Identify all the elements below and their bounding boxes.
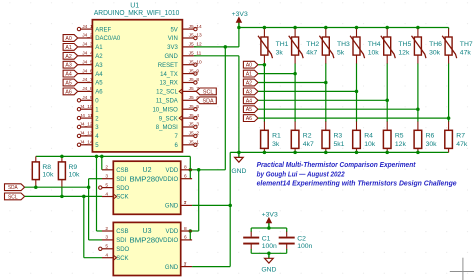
U2 pin 6 VDDIO: [159, 174, 192, 183]
svg-text:J4_13: J4_13: [80, 131, 93, 137]
global label A3 (thermistor divider): [243, 88, 258, 95]
wire SCL to U3 SCK: [84, 196, 102, 257]
svg-text:10k: 10k: [42, 172, 54, 179]
junction +3V3 / R9: [60, 155, 64, 159]
svg-text:R3: R3: [334, 132, 343, 139]
svg-text:Practical Multi-Thermistor Com: Practical Multi-Thermistor Comparison Ex…: [257, 162, 416, 169]
global label A5 at U1: [63, 79, 78, 86]
svg-text:2: 2: [105, 226, 108, 232]
svg-text:A6: A6: [65, 89, 71, 95]
svg-text:3k: 3k: [272, 141, 280, 148]
svg-text:J4_4: J4_4: [82, 51, 93, 57]
svg-text:J5_4: J5_4: [189, 113, 200, 119]
junction +3V3 rail / TH2: [293, 26, 297, 30]
wire SDA to U2 SDI: [89, 179, 102, 188]
svg-text:VDD: VDD: [166, 229, 179, 235]
junction +3V3 drop: [197, 168, 201, 172]
svg-text:SDI: SDI: [116, 177, 126, 183]
svg-text:J4_6: J4_6: [82, 68, 93, 74]
svg-text:J4_12: J4_12: [80, 122, 93, 128]
wire GND vertical (U2/U3): [229, 152, 231, 266]
svg-text:SDA: SDA: [8, 185, 18, 191]
svg-text:element14 Experimenting with T: element14 Experimenting with Thermistors…: [257, 181, 457, 188]
wire node A6: [258, 117, 449, 119]
svg-text:GND: GND: [261, 266, 276, 273]
svg-text:SDA: SDA: [203, 98, 214, 104]
wire SCL to U2 SCK: [25, 195, 102, 197]
resistor R6 30k: [414, 130, 437, 152]
ground GND (main rail): [231, 152, 246, 175]
svg-text:A4: A4: [95, 72, 103, 78]
svg-text:A5: A5: [65, 81, 71, 87]
U3 pin 1 7 GND: [165, 261, 192, 270]
svg-text:8: 8: [184, 165, 187, 171]
svg-text:10_MISO: 10_MISO: [152, 107, 178, 113]
svg-text:14_TX: 14_TX: [160, 72, 178, 78]
junction CSB U2 tap: [100, 155, 104, 159]
svg-text:U2: U2: [143, 167, 152, 174]
wire +3V3 rail: [239, 27, 449, 29]
U1 pin J5_4 9_SCK: [159, 113, 200, 123]
junction node A5 at TH6: [416, 107, 420, 111]
svg-text:TH1: TH1: [276, 41, 289, 48]
svg-text:6: 6: [184, 235, 187, 241]
wire TH4 to R4: [356, 55, 358, 130]
U1 pin J5_5 10_MISO: [152, 104, 199, 114]
U2 pin 8 VDD: [166, 165, 193, 174]
wire node A3: [258, 90, 356, 92]
svg-text:A3: A3: [65, 63, 71, 69]
svg-text:A6: A6: [246, 116, 252, 122]
global label A4 at U1: [63, 70, 78, 77]
wire CSB U3 pull-up: [97, 156, 103, 231]
U1 pin J4_11 2: [77, 113, 99, 123]
U1 pin J5_2 7: [174, 131, 199, 141]
U3 pin 3 SDI: [102, 235, 127, 244]
svg-text:J4_9: J4_9: [82, 95, 93, 101]
svg-text:100n: 100n: [262, 243, 277, 250]
svg-text:C2: C2: [297, 235, 306, 242]
svg-text:SCL: SCL: [8, 194, 18, 200]
svg-text:A5: A5: [95, 81, 103, 87]
power symbol +3V3 (thermistor rail): [232, 11, 248, 28]
global label A5 (thermistor divider): [243, 106, 258, 113]
junction SDA / R8: [34, 185, 38, 189]
U2 pin 1 7 GND: [165, 200, 192, 209]
svg-text:6: 6: [184, 174, 187, 180]
global label A1 at U1: [63, 44, 78, 51]
svg-text:J5_8: J5_8: [189, 77, 200, 83]
svg-text:J4_10: J4_10: [80, 104, 93, 110]
U3 pin 4 SCK: [102, 253, 129, 262]
resistor R1 3k: [261, 130, 281, 152]
U2 pin 5 SDO: [99, 182, 130, 191]
svg-text:4k7: 4k7: [306, 50, 317, 57]
global label A0 at U1: [63, 35, 78, 42]
svg-text:J5_10: J5_10: [189, 59, 202, 65]
svg-text:TH2: TH2: [306, 41, 319, 48]
svg-text:BMP280: BMP280: [130, 238, 160, 245]
thermistor TH4 10k: [350, 28, 381, 59]
U1 pin J5_13 VIN: [168, 33, 202, 43]
svg-text:12k: 12k: [395, 141, 407, 148]
U1 pin J4_6 A4: [78, 68, 103, 78]
svg-text:A3: A3: [246, 89, 252, 95]
svg-text:47k: 47k: [460, 50, 472, 57]
ground GND (decoupling): [261, 253, 276, 273]
svg-text:TH7: TH7: [460, 41, 473, 48]
U2 pin 2 CSB: [102, 165, 129, 174]
wire U2 VDD to U3 VDD drop: [190, 170, 198, 240]
junction GND rail / R5: [385, 151, 389, 155]
wire SDA: [25, 186, 89, 188]
svg-text:R1: R1: [272, 132, 281, 139]
U1 pin J4_12 3: [77, 122, 99, 132]
svg-text:3V3: 3V3: [167, 45, 178, 51]
U1 pin J5_7 12_SCL: [156, 86, 199, 96]
wire TH1 to R1: [263, 55, 265, 130]
svg-text:CSB: CSB: [116, 229, 128, 235]
junction +3V3 rail / TH6: [416, 26, 420, 30]
svg-text:10k: 10k: [364, 141, 376, 148]
wire U2 GND: [192, 204, 230, 206]
U3 pin 6 VDDIO: [159, 235, 192, 244]
svg-text:3k: 3k: [276, 50, 284, 57]
junction node A4 at TH5: [385, 99, 389, 103]
U1 pin J4_13 4: [77, 131, 99, 141]
svg-text:3: 3: [105, 174, 108, 180]
wire GND resistor rail: [230, 151, 448, 153]
junction cap rail GND: [267, 252, 271, 256]
junction SDA branch: [87, 185, 91, 189]
wire capacitor top rail: [251, 227, 287, 229]
junction +3V3 tap: [224, 45, 228, 49]
U3 pin 2 CSB: [102, 226, 129, 235]
thermistor TH7 47k: [442, 28, 473, 59]
svg-text:4k7: 4k7: [303, 141, 314, 148]
svg-text:by Gough Lui — August 2022: by Gough Lui — August 2022: [257, 171, 345, 178]
junction SCL branch: [82, 195, 86, 199]
global label A1 (thermistor divider): [243, 70, 258, 77]
svg-text:SDO: SDO: [116, 247, 129, 253]
resistor R5 12k: [383, 130, 406, 152]
U1 pin J4_8 A6: [78, 86, 103, 96]
svg-text:A2: A2: [246, 81, 252, 87]
svg-text:TH6: TH6: [429, 41, 442, 48]
U1 pin J4_5 A3: [78, 59, 103, 69]
svg-text:4: 4: [105, 253, 108, 259]
svg-text:7: 7: [184, 261, 187, 267]
U2 pin 4 SCK: [102, 191, 129, 200]
notes title block: [257, 162, 457, 188]
svg-text:9_SCK: 9_SCK: [159, 116, 178, 122]
svg-text:GND: GND: [164, 54, 178, 60]
global label A6 (thermistor divider): [243, 115, 258, 122]
svg-text:8: 8: [184, 226, 187, 232]
svg-text:SDI: SDI: [116, 238, 126, 244]
svg-text:SCL: SCL: [203, 89, 214, 95]
svg-text:VIN: VIN: [168, 36, 178, 42]
junction +3V3 rail / TH1: [263, 26, 267, 30]
resistor R9 10k: [58, 156, 80, 196]
svg-text:3: 3: [105, 235, 108, 241]
junction GND rail / R2: [293, 151, 297, 155]
svg-text:A0: A0: [65, 36, 71, 42]
svg-text:ARDUINO_MKR_WIFI_1010: ARDUINO_MKR_WIFI_1010: [94, 10, 180, 17]
svg-text:12_SCL: 12_SCL: [156, 90, 178, 96]
svg-text:C1: C1: [262, 235, 271, 242]
svg-text:BMP280: BMP280: [130, 176, 160, 183]
svg-text:VDDIO: VDDIO: [159, 238, 178, 244]
U1 pin J4_7 A5: [78, 77, 103, 87]
svg-text:A2: A2: [95, 54, 103, 60]
svg-text:7: 7: [184, 200, 187, 206]
resistor R7 47k: [445, 130, 468, 152]
svg-text:12k: 12k: [398, 50, 410, 57]
junction GND rail / R1: [263, 151, 267, 155]
svg-text:U1: U1: [130, 3, 139, 10]
svg-text:5: 5: [105, 244, 108, 250]
junction SCL / R9: [60, 195, 64, 199]
svg-text:VDDIO: VDDIO: [159, 177, 178, 183]
svg-text:GND: GND: [165, 265, 179, 271]
junction +3V3 rail / TH4: [355, 26, 359, 30]
U1 pin J5_8 13_RX: [159, 77, 199, 87]
thermistor TH5 12k: [381, 28, 412, 59]
wire +3V3 distribution: [36, 156, 191, 178]
junction U3 VDD: [189, 229, 193, 233]
IC U3 BMP280 body: [113, 222, 180, 275]
svg-text:10k: 10k: [69, 172, 81, 179]
svg-text:TH4: TH4: [368, 41, 381, 48]
wire node A0: [258, 64, 264, 66]
global label A6 at U1: [63, 88, 78, 95]
junction +3V3 rail / TH5: [385, 26, 389, 30]
svg-text:5V: 5V: [170, 27, 177, 33]
svg-text:TH3: TH3: [337, 41, 350, 48]
svg-text:A1: A1: [95, 45, 103, 51]
junction +3V3 rail / TH3: [324, 26, 328, 30]
power symbol +3V3 (decoupling): [262, 211, 278, 228]
junction CSB U3 tap: [95, 155, 99, 159]
junction GND rail / R6: [416, 151, 420, 155]
junction node A6 at TH7: [447, 116, 451, 120]
svg-text:J4_11: J4_11: [80, 113, 93, 119]
thermistor TH3 5k: [319, 28, 350, 59]
U1 pin J4_14 5: [77, 140, 99, 150]
junction node A0 at TH1: [263, 63, 267, 67]
svg-text:VDD: VDD: [166, 168, 179, 174]
svg-text:+3V3: +3V3: [232, 11, 248, 18]
resistor R8 10k: [32, 156, 54, 187]
svg-text:J4_1: J4_1: [82, 24, 93, 30]
thermistor TH2 4k7: [289, 28, 320, 59]
svg-text:5k: 5k: [337, 50, 345, 57]
svg-text:AREF: AREF: [95, 27, 111, 33]
global label SCL (left): [5, 193, 25, 200]
svg-text:R7: R7: [456, 132, 465, 139]
wire TH3 to R3: [325, 55, 327, 130]
wire TH7 to R7: [448, 55, 450, 130]
svg-text:+3V3: +3V3: [262, 211, 278, 218]
resistor R2 4k7: [291, 130, 314, 152]
wire SDA to U3 SDI: [89, 187, 102, 240]
junction +3V3 rail stem: [237, 26, 241, 30]
svg-text:U3: U3: [143, 228, 152, 235]
wire capacitor bottom rail: [251, 252, 287, 254]
wire TH2 to R2: [294, 55, 296, 130]
wire CSB U2 pull-up: [101, 156, 103, 169]
junction +3V3 / U2 VDD: [189, 168, 193, 172]
U1 pin J4_9 0: [77, 95, 99, 105]
junction node A3 at TH4: [355, 90, 359, 94]
global label A2 (thermistor divider): [243, 79, 258, 86]
svg-text:13_RX: 13_RX: [159, 81, 177, 87]
svg-text:J5_3: J5_3: [189, 122, 200, 128]
global label A2 at U1: [63, 52, 78, 59]
U3 pin 8 VDD: [166, 226, 193, 235]
svg-text:J5_2: J5_2: [189, 131, 200, 137]
U1 pin J5_11 GND: [164, 51, 201, 61]
svg-text:R2: R2: [303, 132, 312, 139]
resistor R3 5k1: [322, 130, 345, 152]
svg-text:R4: R4: [364, 132, 373, 139]
svg-text:A5: A5: [246, 107, 252, 113]
U1 pin J5_12 3V3: [167, 42, 202, 52]
junction GND / U2: [228, 204, 232, 208]
svg-text:J4_8: J4_8: [82, 86, 93, 92]
svg-text:R9: R9: [69, 164, 78, 171]
svg-text:J5_5: J5_5: [189, 104, 200, 110]
U1 pin J4_3 A1: [78, 42, 103, 52]
svg-text:TH5: TH5: [398, 41, 411, 48]
junction GND rail / R4: [355, 151, 359, 155]
svg-text:GND: GND: [231, 168, 246, 175]
svg-text:RESET: RESET: [158, 63, 178, 69]
junction GND rail stem: [237, 151, 241, 155]
wire node A1: [258, 73, 295, 75]
global label SDA at U1: [196, 97, 216, 104]
svg-text:J5_9: J5_9: [189, 68, 200, 74]
svg-text:30k: 30k: [426, 141, 438, 148]
svg-text:A4: A4: [65, 72, 71, 78]
svg-text:J4_7: J4_7: [82, 77, 93, 83]
U3 pin 5 SDO: [99, 244, 130, 253]
svg-text:SDO: SDO: [116, 186, 129, 192]
U1 pin J5_10 RESET: [158, 59, 202, 69]
svg-text:100n: 100n: [297, 243, 312, 250]
global label A4 (thermistor divider): [243, 97, 258, 104]
svg-text:SCK: SCK: [116, 256, 128, 262]
svg-text:A4: A4: [246, 98, 252, 104]
svg-text:2: 2: [105, 165, 108, 171]
wire node A2: [258, 82, 326, 84]
junction GND rail / R3: [324, 151, 328, 155]
thermistor TH6 30k: [412, 28, 443, 59]
wire U3 GND: [192, 266, 230, 268]
svg-text:J5_14: J5_14: [189, 24, 202, 30]
svg-text:CSB: CSB: [116, 168, 128, 174]
capacitor C1 100n: [243, 228, 277, 253]
U1 pin J4_2 DAC0/A0: [78, 33, 121, 43]
svg-text:11_SDA: 11_SDA: [156, 99, 178, 105]
svg-text:J4_2: J4_2: [82, 33, 93, 39]
resistor R4 10k: [353, 130, 376, 152]
global label SDA (left): [5, 184, 25, 191]
svg-text:A1: A1: [65, 45, 71, 51]
svg-text:A0: A0: [246, 63, 252, 69]
IC U1 ARDUINO_MKR_WIFI_1010 body: [92, 3, 182, 152]
wire node A4: [258, 99, 387, 101]
svg-text:R5: R5: [395, 132, 404, 139]
capacitor C2 100n: [279, 228, 313, 253]
U1 pin J4_4 A2: [78, 51, 103, 61]
junction node A2 at TH3: [324, 81, 328, 85]
svg-text:10k: 10k: [368, 50, 380, 57]
U1 pin J5_6 11_SDA: [156, 95, 199, 105]
junction cap rail +3V3: [267, 226, 271, 230]
svg-text:5k1: 5k1: [334, 141, 345, 148]
wire +3V3 tap down to lower circuits: [190, 47, 225, 170]
global label A0 (thermistor divider): [243, 61, 258, 68]
svg-text:J4_3: J4_3: [82, 42, 93, 48]
wire TH5 to R5: [386, 55, 388, 130]
wire TH6 to R6: [417, 55, 419, 130]
svg-text:GND: GND: [165, 204, 179, 210]
svg-text:A3: A3: [95, 63, 103, 69]
svg-text:DAC0/A0: DAC0/A0: [95, 36, 121, 42]
svg-text:A6: A6: [95, 90, 103, 96]
svg-text:J5_1: J5_1: [189, 140, 200, 146]
svg-text:5: 5: [105, 182, 108, 188]
svg-text:30k: 30k: [429, 50, 441, 57]
U1 pin J5_14 5V: [170, 24, 202, 34]
svg-text:J5_13: J5_13: [189, 33, 202, 39]
svg-text:R8: R8: [42, 164, 51, 171]
wire node A5: [258, 108, 418, 110]
U1 pin J5_9 14_TX: [160, 68, 199, 78]
IC U2 BMP280 body: [113, 161, 180, 214]
U1 pin J4_10 1: [77, 104, 99, 114]
svg-text:8_MOSI: 8_MOSI: [156, 125, 178, 131]
svg-text:J4_5: J4_5: [82, 59, 93, 65]
U1 pin J4_1 AREF: [77, 24, 111, 34]
wire U1 GND pin down to resistor rail: [194, 56, 239, 153]
svg-text:J4_14: J4_14: [80, 140, 93, 146]
thermistor TH1 3k: [258, 28, 289, 59]
svg-text:A1: A1: [246, 72, 252, 78]
wire U1 3V3 pin to +3V3 rail: [194, 28, 239, 47]
U1 pin J5_3 8_MOSI: [156, 122, 200, 132]
svg-text:R6: R6: [426, 132, 435, 139]
svg-text:47k: 47k: [456, 141, 468, 148]
U1 pin J5_1 6: [174, 140, 199, 150]
junction node A1 at TH2: [293, 72, 297, 76]
U2 pin 3 SDI: [102, 174, 127, 183]
global label SCL at U1: [196, 88, 216, 95]
global label A3 at U1: [63, 61, 78, 68]
svg-text:A2: A2: [65, 54, 71, 60]
svg-text:4: 4: [105, 191, 108, 197]
svg-text:SCK: SCK: [116, 195, 128, 201]
